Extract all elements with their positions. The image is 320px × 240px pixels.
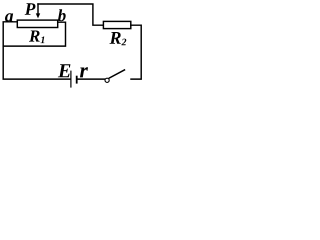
rheostat R1 body (17, 20, 57, 27)
label R1 subscript 1 (41, 36, 45, 43)
label R1 (29, 30, 40, 41)
label R2 (109, 32, 120, 44)
battery E short plate (76, 77, 78, 83)
label R2 subscript 2 (121, 39, 126, 46)
battery E long plate (70, 71, 72, 87)
switch S pivot (105, 78, 109, 82)
wire from R2 down right edge to switch (131, 25, 141, 79)
label b (58, 9, 66, 21)
label a (5, 13, 13, 21)
wire from left edge to battery and up to terminal a (3, 22, 70, 79)
slider P arrowhead (36, 13, 40, 18)
switch S lever (109, 70, 124, 78)
wire terminal b loop to left edge (3, 22, 65, 46)
wire from battery to switch (78, 78, 105, 80)
label r (80, 67, 88, 77)
label E (58, 64, 71, 77)
label P (25, 3, 36, 14)
slider P arrow stem (37, 4, 39, 14)
wire from slider P to R2 (38, 4, 103, 25)
resistor R2 (103, 21, 130, 28)
